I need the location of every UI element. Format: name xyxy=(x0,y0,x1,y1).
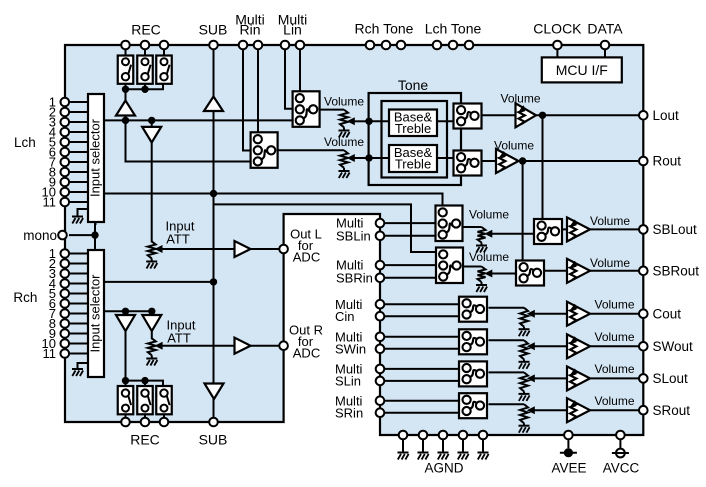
svg-text:Cout: Cout xyxy=(653,306,682,321)
wire Multi SWin 2 xyxy=(380,348,459,350)
svg-text:Cin: Cin xyxy=(335,309,355,324)
wire Multi Rin 2 riser xyxy=(257,49,259,133)
wire Lout drop to SBLout selector xyxy=(542,115,544,220)
svg-text:SLout: SLout xyxy=(653,371,689,386)
wire CLOCK stub xyxy=(556,49,558,57)
pin Multi Rin 2 xyxy=(254,41,263,50)
REC Lch buffer xyxy=(116,101,135,116)
wire bottom REC stub 2 xyxy=(144,381,146,387)
SBR volume pot xyxy=(478,267,486,283)
wire ATT-R branch xyxy=(151,311,153,316)
Multi Lin selector (box A) xyxy=(293,91,320,127)
svg-text:mono: mono xyxy=(23,228,57,243)
SUB top buffer xyxy=(204,97,223,112)
wire SBRout amp to pin xyxy=(590,270,643,272)
wire SBR selector to pot xyxy=(463,266,482,268)
pin REC bottom 3 xyxy=(160,418,169,427)
wire Cout switch to pot xyxy=(489,307,525,309)
pin SRout xyxy=(639,406,648,415)
wire bottom REC stub 1 xyxy=(125,381,127,387)
wire SUB top amp input xyxy=(213,110,215,194)
wire bottom REC bus xyxy=(126,381,164,387)
pin Multi SWin 2 xyxy=(376,345,385,354)
wire Rch input 6 xyxy=(69,303,88,305)
svg-text:Volume: Volume xyxy=(494,138,534,152)
junction REC top bus 2 xyxy=(141,86,148,93)
junction tone L in xyxy=(365,118,372,125)
wire SUB bottom amp input xyxy=(213,282,215,385)
svg-text:ADC: ADC xyxy=(293,250,320,265)
pin Out L for ADC xyxy=(279,245,288,254)
svg-text:SBLout: SBLout xyxy=(653,222,698,237)
REC switch top 3 xyxy=(156,56,172,84)
tone volume pot L xyxy=(340,110,348,128)
wire SBLout amp to pin xyxy=(590,228,643,230)
AVEE supply symbol xyxy=(564,448,573,457)
wire REC top pin 1 stub xyxy=(125,49,127,56)
junction ATT-L xyxy=(148,117,155,124)
wire Base-Treble R to switch xyxy=(437,157,455,159)
svg-text:SLin: SLin xyxy=(335,374,361,389)
wire Lch input 10 xyxy=(69,191,88,193)
junction Lch out / REC branch xyxy=(122,117,129,124)
wire SRout amp to pin xyxy=(590,409,643,411)
pin Lch 10 xyxy=(61,188,70,197)
junction SUB top tap xyxy=(210,190,217,197)
svg-text:Rch Tone: Rch Tone xyxy=(355,21,414,37)
svg-text:Volume: Volume xyxy=(469,208,509,222)
wire SWout amp to pin xyxy=(590,345,643,347)
wire ATT-L branch xyxy=(151,120,153,128)
wire Lch input 7 xyxy=(69,161,88,163)
junction ATT-R xyxy=(148,308,155,315)
svg-text:11: 11 xyxy=(43,195,57,210)
wire SBL selector to pot xyxy=(463,226,482,228)
wire Rch selector output 2 xyxy=(104,310,152,312)
pin CLOCK xyxy=(553,41,562,50)
wire Rch input 8 xyxy=(69,323,88,325)
wire Rch input 10 xyxy=(69,343,88,345)
MCU I/F block xyxy=(542,57,622,82)
SBLout source selector xyxy=(534,219,562,244)
pin Multi Rin 1 xyxy=(239,41,248,50)
Cout volume amp xyxy=(567,302,590,326)
wire tone R input xyxy=(369,157,389,159)
SBRout volume amp xyxy=(567,259,590,283)
svg-text:Volume: Volume xyxy=(594,362,634,376)
SBL volume pot xyxy=(478,227,486,243)
pin Lch 5 xyxy=(61,138,70,147)
wire Rch input 5 xyxy=(69,293,88,295)
Multi Cin selector xyxy=(459,297,487,322)
svg-text:Input selector: Input selector xyxy=(88,118,103,197)
wire mono pin xyxy=(69,234,95,236)
wire tone switch R to Rout amp xyxy=(482,160,497,162)
wire SUB link xyxy=(213,194,215,282)
wire SUB top pin to amp xyxy=(213,49,215,98)
wire SLout amp to pin xyxy=(590,377,643,379)
wire Multi SBRin 2 xyxy=(380,277,437,279)
svg-text:ADC: ADC xyxy=(293,346,320,361)
wire REC bottom pin 2 stub xyxy=(144,414,146,419)
wire Multi SWin 1 xyxy=(380,336,459,338)
wire mono mix to Rin selector xyxy=(126,116,252,162)
svg-text:Input selector: Input selector xyxy=(88,274,103,353)
pin Multi SLin 2 xyxy=(376,377,385,386)
pin SUB top xyxy=(209,41,218,50)
svg-text:SWout: SWout xyxy=(653,339,694,354)
ground AGND 3 xyxy=(438,452,449,454)
pin Rch 2 xyxy=(61,259,70,268)
svg-text:SBRout: SBRout xyxy=(653,264,700,279)
wire tone L input xyxy=(369,120,389,122)
pin Multi Lin 2 xyxy=(296,41,305,50)
svg-text:AVCC: AVCC xyxy=(603,461,640,476)
wire Lch input 9 xyxy=(69,181,88,183)
wire top REC bus xyxy=(126,83,164,89)
svg-text:ATT: ATT xyxy=(166,232,190,247)
wire REC-L buffer input xyxy=(125,115,127,121)
pin REC bottom 2 xyxy=(141,418,150,427)
pin Rch 1 xyxy=(61,249,70,258)
svg-text:Rch: Rch xyxy=(13,290,37,305)
pin Rch 4 xyxy=(61,279,70,288)
wire Multi SLin 2 xyxy=(380,380,459,382)
ATT-L buffer xyxy=(142,127,161,143)
SUB bottom buffer xyxy=(205,384,224,400)
Out R for ADC amp xyxy=(235,338,251,354)
wire REC-R buffer to bottom REC switches xyxy=(125,330,127,381)
svg-text:ATT: ATT xyxy=(167,331,191,346)
wire Lch input 4 xyxy=(69,131,88,133)
wire selector B to tone volume R xyxy=(278,149,344,151)
pin Lch Tone 2 xyxy=(449,41,458,50)
junction REC bottom bus 1 xyxy=(122,377,129,384)
pin SWout xyxy=(639,342,648,351)
pin Lch 8 xyxy=(61,168,70,177)
Input ATT R pot xyxy=(148,338,156,355)
svg-text:MCU I/F: MCU I/F xyxy=(556,62,608,78)
junction Rout branch xyxy=(519,157,526,164)
pin AGND 4 xyxy=(459,431,468,440)
svg-text:AVEE: AVEE xyxy=(551,461,586,476)
wire Lch aux to SBL selector xyxy=(104,194,443,207)
wire Base-Treble L to switch xyxy=(437,120,455,122)
svg-text:Lch: Lch xyxy=(14,135,36,150)
wire SBLout selector to amp xyxy=(562,228,567,230)
wire AVEE stub xyxy=(567,439,569,448)
svg-text:Volume: Volume xyxy=(590,256,630,270)
svg-text:Lin: Lin xyxy=(283,21,302,37)
pin Lch 1 xyxy=(61,98,70,107)
svg-text:Tone: Tone xyxy=(398,77,429,93)
wire Rch selector output 1 xyxy=(104,281,214,283)
SWout volume amp xyxy=(567,334,590,358)
junction REC top bus 1 xyxy=(122,86,129,93)
pin AGND 1 xyxy=(399,431,408,440)
pin SLout xyxy=(639,374,648,383)
svg-text:Rin: Rin xyxy=(239,21,260,37)
pin Multi Cin 1 xyxy=(376,300,385,309)
REC Rch buffer xyxy=(116,315,135,331)
svg-text:CLOCK: CLOCK xyxy=(533,21,582,37)
pin Lch Tone 1 xyxy=(433,41,442,50)
wire Lch input 5 xyxy=(69,141,88,143)
pin Lch 2 xyxy=(61,108,70,117)
input selector Lch (U1) xyxy=(88,94,104,222)
REC switch top 1 xyxy=(118,56,134,84)
pin REC 2 xyxy=(141,41,150,50)
pin Lch Tone 3 xyxy=(465,41,474,50)
wire top REC stub 1 xyxy=(125,83,127,89)
tone output switch R xyxy=(454,151,482,176)
wire Lout amp to pin xyxy=(536,114,643,116)
pin Rch Tone 2 xyxy=(382,41,391,50)
pin Multi SBLin 2 xyxy=(376,232,385,241)
pin Rch 8 xyxy=(61,319,70,328)
svg-text:Volume: Volume xyxy=(324,94,364,108)
tone volume pot R xyxy=(340,150,348,168)
tone output switch L xyxy=(454,104,482,129)
wire Rch aux riser xyxy=(214,204,438,252)
pin Lout xyxy=(639,111,648,120)
pin Rout xyxy=(639,157,648,166)
Base and Treble L xyxy=(389,110,437,137)
pin Rch 7 xyxy=(61,309,70,318)
wire ATT-L to pot xyxy=(151,141,153,242)
svg-text:DATA: DATA xyxy=(587,21,623,37)
svg-text:Volume: Volume xyxy=(590,214,630,228)
wire Multi Cin 1 xyxy=(380,303,459,305)
wire ATT-R to pot xyxy=(151,330,153,339)
wire REC top pin 2 stub xyxy=(144,49,146,56)
pin Cout xyxy=(639,309,648,318)
junction REC-R xyxy=(122,308,129,315)
input selector Rch (U2) xyxy=(88,250,104,377)
svg-text:REC: REC xyxy=(130,432,160,448)
pin Rch 6 xyxy=(61,299,70,308)
wire Multi SBLin 2 xyxy=(380,235,437,237)
Multi SWin selector xyxy=(459,329,487,354)
SLout volume amp xyxy=(567,366,590,390)
pin Lch 9 xyxy=(61,178,70,187)
pin REC 1 xyxy=(121,41,130,50)
pin Lch 3 xyxy=(61,118,70,127)
wire Cout amp to pin xyxy=(590,313,643,315)
SLout volume pot xyxy=(520,372,528,391)
pin AVCC xyxy=(616,431,625,440)
pin Multi SBRin 1 xyxy=(376,261,385,270)
wire Out R amp to pin xyxy=(251,345,284,347)
wire REC-L buffer output xyxy=(125,89,127,101)
SBRout source selector xyxy=(516,261,544,286)
pin Rch 9 xyxy=(61,329,70,338)
wire Lch selector output 1 xyxy=(104,119,294,121)
svg-text:AGND: AGND xyxy=(424,461,463,476)
pin Multi Cin 2 xyxy=(376,312,385,321)
Lout volume amp xyxy=(516,103,537,127)
Rout volume amp xyxy=(496,149,519,173)
ATT-R buffer xyxy=(142,315,161,331)
pin Multi SWin 1 xyxy=(376,333,385,342)
wire REC-R branch xyxy=(125,311,127,316)
wire Rch input 7 xyxy=(69,313,88,315)
pin Multi Lin 1 xyxy=(281,41,290,50)
svg-text:SBLin: SBLin xyxy=(336,228,371,243)
Base and Treble R xyxy=(389,145,437,172)
wire Out L amp to pin xyxy=(251,248,284,250)
ground AGND 4 xyxy=(458,452,469,454)
pin Rch 3 xyxy=(61,269,70,278)
wire Multi SBLin 1 xyxy=(380,222,437,224)
pin AVEE xyxy=(564,431,573,440)
pin Lch 7 xyxy=(61,158,70,167)
pin Rch Tone 3 xyxy=(397,41,406,50)
wire top REC stub 2 xyxy=(144,83,146,89)
svg-text:SUB: SUB xyxy=(199,21,228,37)
ground AGND 2 xyxy=(418,452,429,454)
svg-text:Volume: Volume xyxy=(594,297,634,311)
wire DATA stub xyxy=(604,49,606,57)
wire SWout switch to pot xyxy=(489,339,525,341)
wire Lch input 8 xyxy=(69,171,88,173)
SRout volume amp xyxy=(567,398,590,422)
svg-text:Volume: Volume xyxy=(594,394,634,408)
wire Lch input 11 xyxy=(69,201,88,203)
pin Multi SLin 1 xyxy=(376,365,385,374)
pin AGND 3 xyxy=(439,431,448,440)
wire REC bottom pin 3 stub xyxy=(163,414,165,419)
SBR input selector xyxy=(436,248,463,284)
svg-text:SUB: SUB xyxy=(199,432,228,448)
pin mono xyxy=(58,231,67,240)
pin Multi SBLin 1 xyxy=(376,219,385,228)
pin AGND 5 xyxy=(479,431,488,440)
wire Multi SRin 1 xyxy=(380,400,459,402)
pin Rch 11 xyxy=(61,349,70,358)
wire Rout amp to pin xyxy=(519,160,644,162)
junction mono xyxy=(91,231,98,238)
Cout volume pot xyxy=(520,308,528,327)
SWout volume pot xyxy=(520,340,528,359)
Multi SRin selector xyxy=(459,393,487,418)
wire REC bottom pin 1 stub xyxy=(125,414,127,419)
junction Lout branch xyxy=(539,112,546,119)
svg-text:Rout: Rout xyxy=(653,154,682,169)
wire Lch input 1 xyxy=(69,101,88,103)
wire Rch input 11 xyxy=(69,353,88,355)
Multi Rin selector (box B) xyxy=(251,132,278,168)
svg-text:Lch Tone: Lch Tone xyxy=(425,21,482,37)
pin Out R for ADC xyxy=(279,341,288,350)
wire Rch input 3 xyxy=(69,273,88,275)
Input ATT L pot xyxy=(148,241,156,258)
svg-text:Volume: Volume xyxy=(469,250,509,264)
svg-text:SBRin: SBRin xyxy=(336,270,373,285)
Tone inner box xyxy=(382,101,448,178)
AVCC supply symbol xyxy=(616,449,625,458)
wire REC top pin 3 stub xyxy=(163,49,165,56)
pin Lch 4 xyxy=(61,128,70,137)
svg-text:Treble: Treble xyxy=(395,156,431,171)
pin Lch 6 xyxy=(61,148,70,157)
wire Rout drop to SBRout selector xyxy=(522,161,524,262)
pin Rch 10 xyxy=(61,339,70,348)
Multi SLin selector xyxy=(459,361,487,386)
wire Multi Lin 1 riser xyxy=(285,49,294,109)
svg-text:SRout: SRout xyxy=(653,403,691,418)
pin SBLout xyxy=(639,225,648,234)
pin Rch 5 xyxy=(61,289,70,298)
IC body (shaded block) xyxy=(65,45,643,435)
svg-text:SWin: SWin xyxy=(335,341,366,356)
pin AGND 2 xyxy=(419,431,428,440)
pin REC bottom 1 xyxy=(121,418,130,427)
wire Multi SLin 1 xyxy=(380,368,459,370)
wire SUB bottom amp to pin xyxy=(213,398,215,418)
junction Rch out end xyxy=(210,278,217,285)
svg-text:Volume: Volume xyxy=(324,135,364,149)
REC switch bottom 3 xyxy=(156,386,172,414)
pin SUB bottom xyxy=(209,418,218,427)
wire Multi SBRin 1 xyxy=(380,264,437,266)
svg-text:11: 11 xyxy=(43,346,57,361)
Tone group box xyxy=(369,93,461,185)
SRout volume pot xyxy=(520,404,528,423)
svg-text:Lout: Lout xyxy=(653,108,680,123)
wire selector link xyxy=(94,222,96,250)
svg-text:SRin: SRin xyxy=(335,405,363,420)
wire Multi Rin 1 riser xyxy=(243,49,252,151)
pin Multi SBRin 2 xyxy=(376,274,385,283)
svg-text:Treble: Treble xyxy=(395,121,431,136)
wire Rch input 1 xyxy=(69,253,88,255)
pin Lch 11 xyxy=(61,198,70,207)
pin Multi SRin 1 xyxy=(376,396,385,405)
ground under Rch selector xyxy=(78,363,90,369)
pin Rch Tone 1 xyxy=(366,41,375,50)
ground AGND 1 xyxy=(398,452,409,454)
REC switch top 2 xyxy=(137,56,153,84)
pin Multi SRin 2 xyxy=(376,408,385,417)
wire Rch input 9 xyxy=(69,333,88,335)
pin DATA xyxy=(601,41,610,50)
wire Rch input 2 xyxy=(69,263,88,265)
junction REC bottom bus 2 xyxy=(141,377,148,384)
wire Multi Cin 2 xyxy=(380,315,459,317)
REC switch bottom 2 xyxy=(137,386,153,414)
ground AGND 5 xyxy=(478,452,489,454)
wire SRout switch to pot xyxy=(489,403,525,405)
wire Lch input 2 xyxy=(69,111,88,113)
pin SBRout xyxy=(639,267,648,276)
wire Multi Lin 2 riser xyxy=(299,49,301,92)
SBL input selector xyxy=(436,206,463,242)
wire AVCC stub xyxy=(619,439,621,449)
svg-text:REC: REC xyxy=(131,22,161,38)
ground under Lch selector xyxy=(78,209,90,216)
wire Rch input 4 xyxy=(69,283,88,285)
wire selector A to tone volume L xyxy=(320,109,344,111)
svg-text:Volume: Volume xyxy=(500,91,540,105)
SBLout volume amp xyxy=(567,217,590,241)
wire tone switch L to Lout amp xyxy=(482,114,516,116)
wire SBRout selector to amp xyxy=(544,270,567,272)
wire Lch input 3 xyxy=(69,121,88,123)
wire SLout switch to pot xyxy=(489,371,525,373)
svg-text:Volume: Volume xyxy=(594,330,634,344)
wire Lch input 6 xyxy=(69,151,88,153)
